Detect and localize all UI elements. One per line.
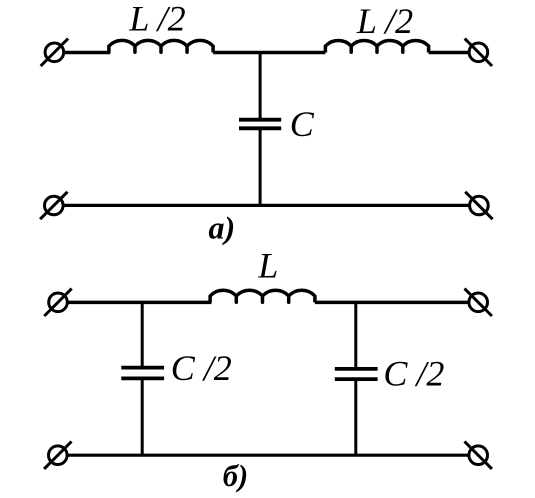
svg-text:L: L — [257, 246, 278, 286]
inductor L (b) — [210, 290, 315, 302]
wire (top rail, left segment, b) — [68, 301, 212, 305]
terminal (bottom-right, a) — [465, 192, 492, 219]
capacitor C (a) — [239, 120, 281, 129]
wire (top rail, left segment, a) — [64, 51, 110, 55]
svg-text:C: C — [290, 104, 315, 144]
wire (vertical, above capacitor C/2 left, b) — [141, 302, 144, 366]
terminal (top-right, a) — [465, 39, 492, 66]
inductor L/2 (left, a) — [109, 40, 213, 52]
svg-text:L /2: L /2 — [356, 1, 413, 41]
wire (top rail, right segment, a) — [429, 51, 469, 55]
terminal (top-right, b) — [465, 289, 492, 316]
terminal (top-left, b) — [44, 289, 71, 316]
wire (vertical, below capacitor C/2 right, b) — [354, 381, 357, 456]
svg-text:C /2: C /2 — [383, 354, 444, 394]
wire (vertical, above capacitor C, a) — [259, 53, 262, 119]
terminal (bottom-left, b) — [44, 442, 71, 469]
svg-text:б): б) — [223, 459, 248, 493]
terminal (top-left, a) — [41, 39, 68, 66]
inductor L/2 (right, a) — [325, 40, 428, 52]
svg-text:L /2: L /2 — [128, 0, 185, 39]
wire (vertical, below capacitor C/2 left, b) — [141, 380, 144, 455]
terminal (bottom-right, b) — [465, 442, 492, 469]
terminal (bottom-left, a) — [40, 192, 67, 219]
wire (bottom rail, a) — [64, 204, 469, 207]
wire (top rail, middle segment, a) — [213, 51, 325, 55]
capacitor C/2 (left, b) — [121, 368, 164, 379]
wire (vertical, below capacitor C, a) — [259, 130, 262, 205]
svg-text:C /2: C /2 — [171, 348, 232, 388]
svg-text:а): а) — [209, 210, 236, 246]
wire (top rail, right segment, b) — [315, 301, 468, 305]
wire (bottom rail, b) — [68, 454, 468, 457]
wire (vertical, above capacitor C/2 right, b) — [354, 302, 357, 367]
capacitor C/2 (right, b) — [335, 369, 378, 379]
